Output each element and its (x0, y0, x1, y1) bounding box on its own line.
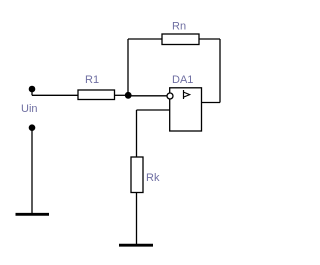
svg-text:Rk: Rk (146, 172, 160, 184)
svg-text:R1: R1 (85, 74, 99, 86)
svg-text:Uin: Uin (21, 103, 38, 115)
svg-text:Rn: Rn (172, 21, 186, 33)
svg-text:DA1: DA1 (172, 74, 193, 86)
